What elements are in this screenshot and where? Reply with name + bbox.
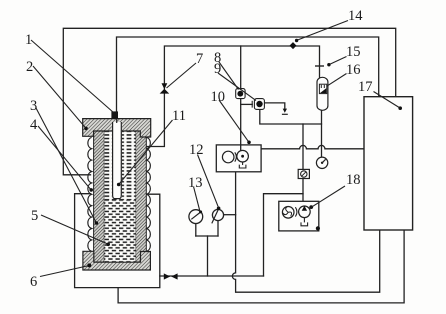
svg-text:14: 14 — [348, 8, 363, 24]
svg-text:16: 16 — [346, 62, 361, 78]
center tube 11 — [112, 119, 122, 199]
wire: from fitting 9 down and right to cylinder line — [260, 109, 322, 124]
wire: from tee down to fitting and box 18 pump — [302, 124, 304, 206]
box 10 pump unit — [216, 145, 261, 172]
wire: branch down to fitting 8 and box 10 — [240, 46, 242, 151]
wire: long bottom line to box 17 bottom right port — [118, 230, 404, 303]
gauge 13 — [189, 210, 203, 224]
vessel heating coil left — [88, 137, 92, 251]
wire: jacket loop around vessel bottom — [75, 194, 160, 288]
svg-text:18: 18 — [346, 172, 361, 188]
vent symbol near fitting 9 — [282, 109, 288, 115]
wire: cylinder 16 down to pressure gauge — [321, 110, 323, 157]
svg-text:2: 2 — [26, 59, 33, 75]
wire: gauge 12 to box 10 drop line — [224, 214, 236, 216]
vessel wall left 3 — [94, 131, 105, 262]
svg-text:7: 7 — [196, 51, 203, 67]
wire: riser from drain valve line up to box 18 feed — [264, 194, 304, 276]
vessel top flange 2 — [83, 119, 151, 137]
wire: outer loop from box 17 top over the top to vessel left port — [63, 28, 395, 175]
wire: box 10 right side to box 17 left with hops — [261, 145, 364, 148]
wire: third line from vessel right port up over to cylinder 16 — [144, 46, 320, 147]
wire: gauge 12 stem — [217, 221, 219, 237]
wire: vent line from fitting 9 — [264, 103, 284, 109]
svg-text:5: 5 — [31, 208, 38, 224]
vessel liquid 5 — [104, 200, 135, 262]
svg-text:4: 4 — [30, 117, 38, 133]
svg-text:17: 17 — [358, 79, 373, 95]
vessel cavity upper fill — [104, 131, 135, 200]
valve 14 — [290, 42, 297, 49]
regulating valve 12 — [212, 207, 224, 224]
svg-text:6: 6 — [30, 274, 37, 290]
drain valve (two facing triangles) on bottom line — [164, 273, 178, 279]
svg-text:13: 13 — [188, 175, 203, 191]
check valve 7 — [160, 83, 170, 93]
fitting above box 18 — [298, 169, 309, 178]
svg-text:10: 10 — [211, 89, 226, 105]
thermocouple gland 1 — [111, 111, 118, 119]
wire: gauge manifold — [196, 235, 218, 237]
wire: drain valve line from vessel jacket to riser — [160, 275, 264, 277]
box 18 pump unit — [279, 201, 320, 231]
pressure gauge above box 18 — [316, 157, 327, 168]
leader lines — [31, 21, 400, 277]
fitting 8 — [236, 89, 245, 99]
wire: gauge manifold drop to drain valve line — [207, 236, 209, 276]
svg-text:12: 12 — [189, 142, 204, 158]
cylinder 16 — [317, 77, 328, 110]
wire: gauge 13 stem — [195, 224, 197, 237]
valve 15 tick — [315, 65, 324, 67]
vessel bottom flange 6 — [83, 251, 150, 270]
fitting 9 — [252, 99, 264, 110]
vessel heating coil right — [147, 137, 151, 251]
wire: second loop from box 17 top to vessel center tube gland — [117, 37, 379, 114]
svg-text:1: 1 — [25, 32, 32, 48]
svg-text:3: 3 — [30, 98, 37, 114]
leader dots — [84, 39, 402, 268]
svg-text:9: 9 — [214, 61, 221, 77]
vessel wall right — [136, 131, 147, 262]
svg-text:15: 15 — [346, 44, 361, 60]
svg-text:11: 11 — [172, 108, 186, 124]
wire: box 10 bottom drop with hop, to box 17 bottom left port — [232, 172, 379, 292]
wire: stub from branch to fitting 9 — [241, 103, 253, 105]
box 17 — [364, 97, 413, 230]
